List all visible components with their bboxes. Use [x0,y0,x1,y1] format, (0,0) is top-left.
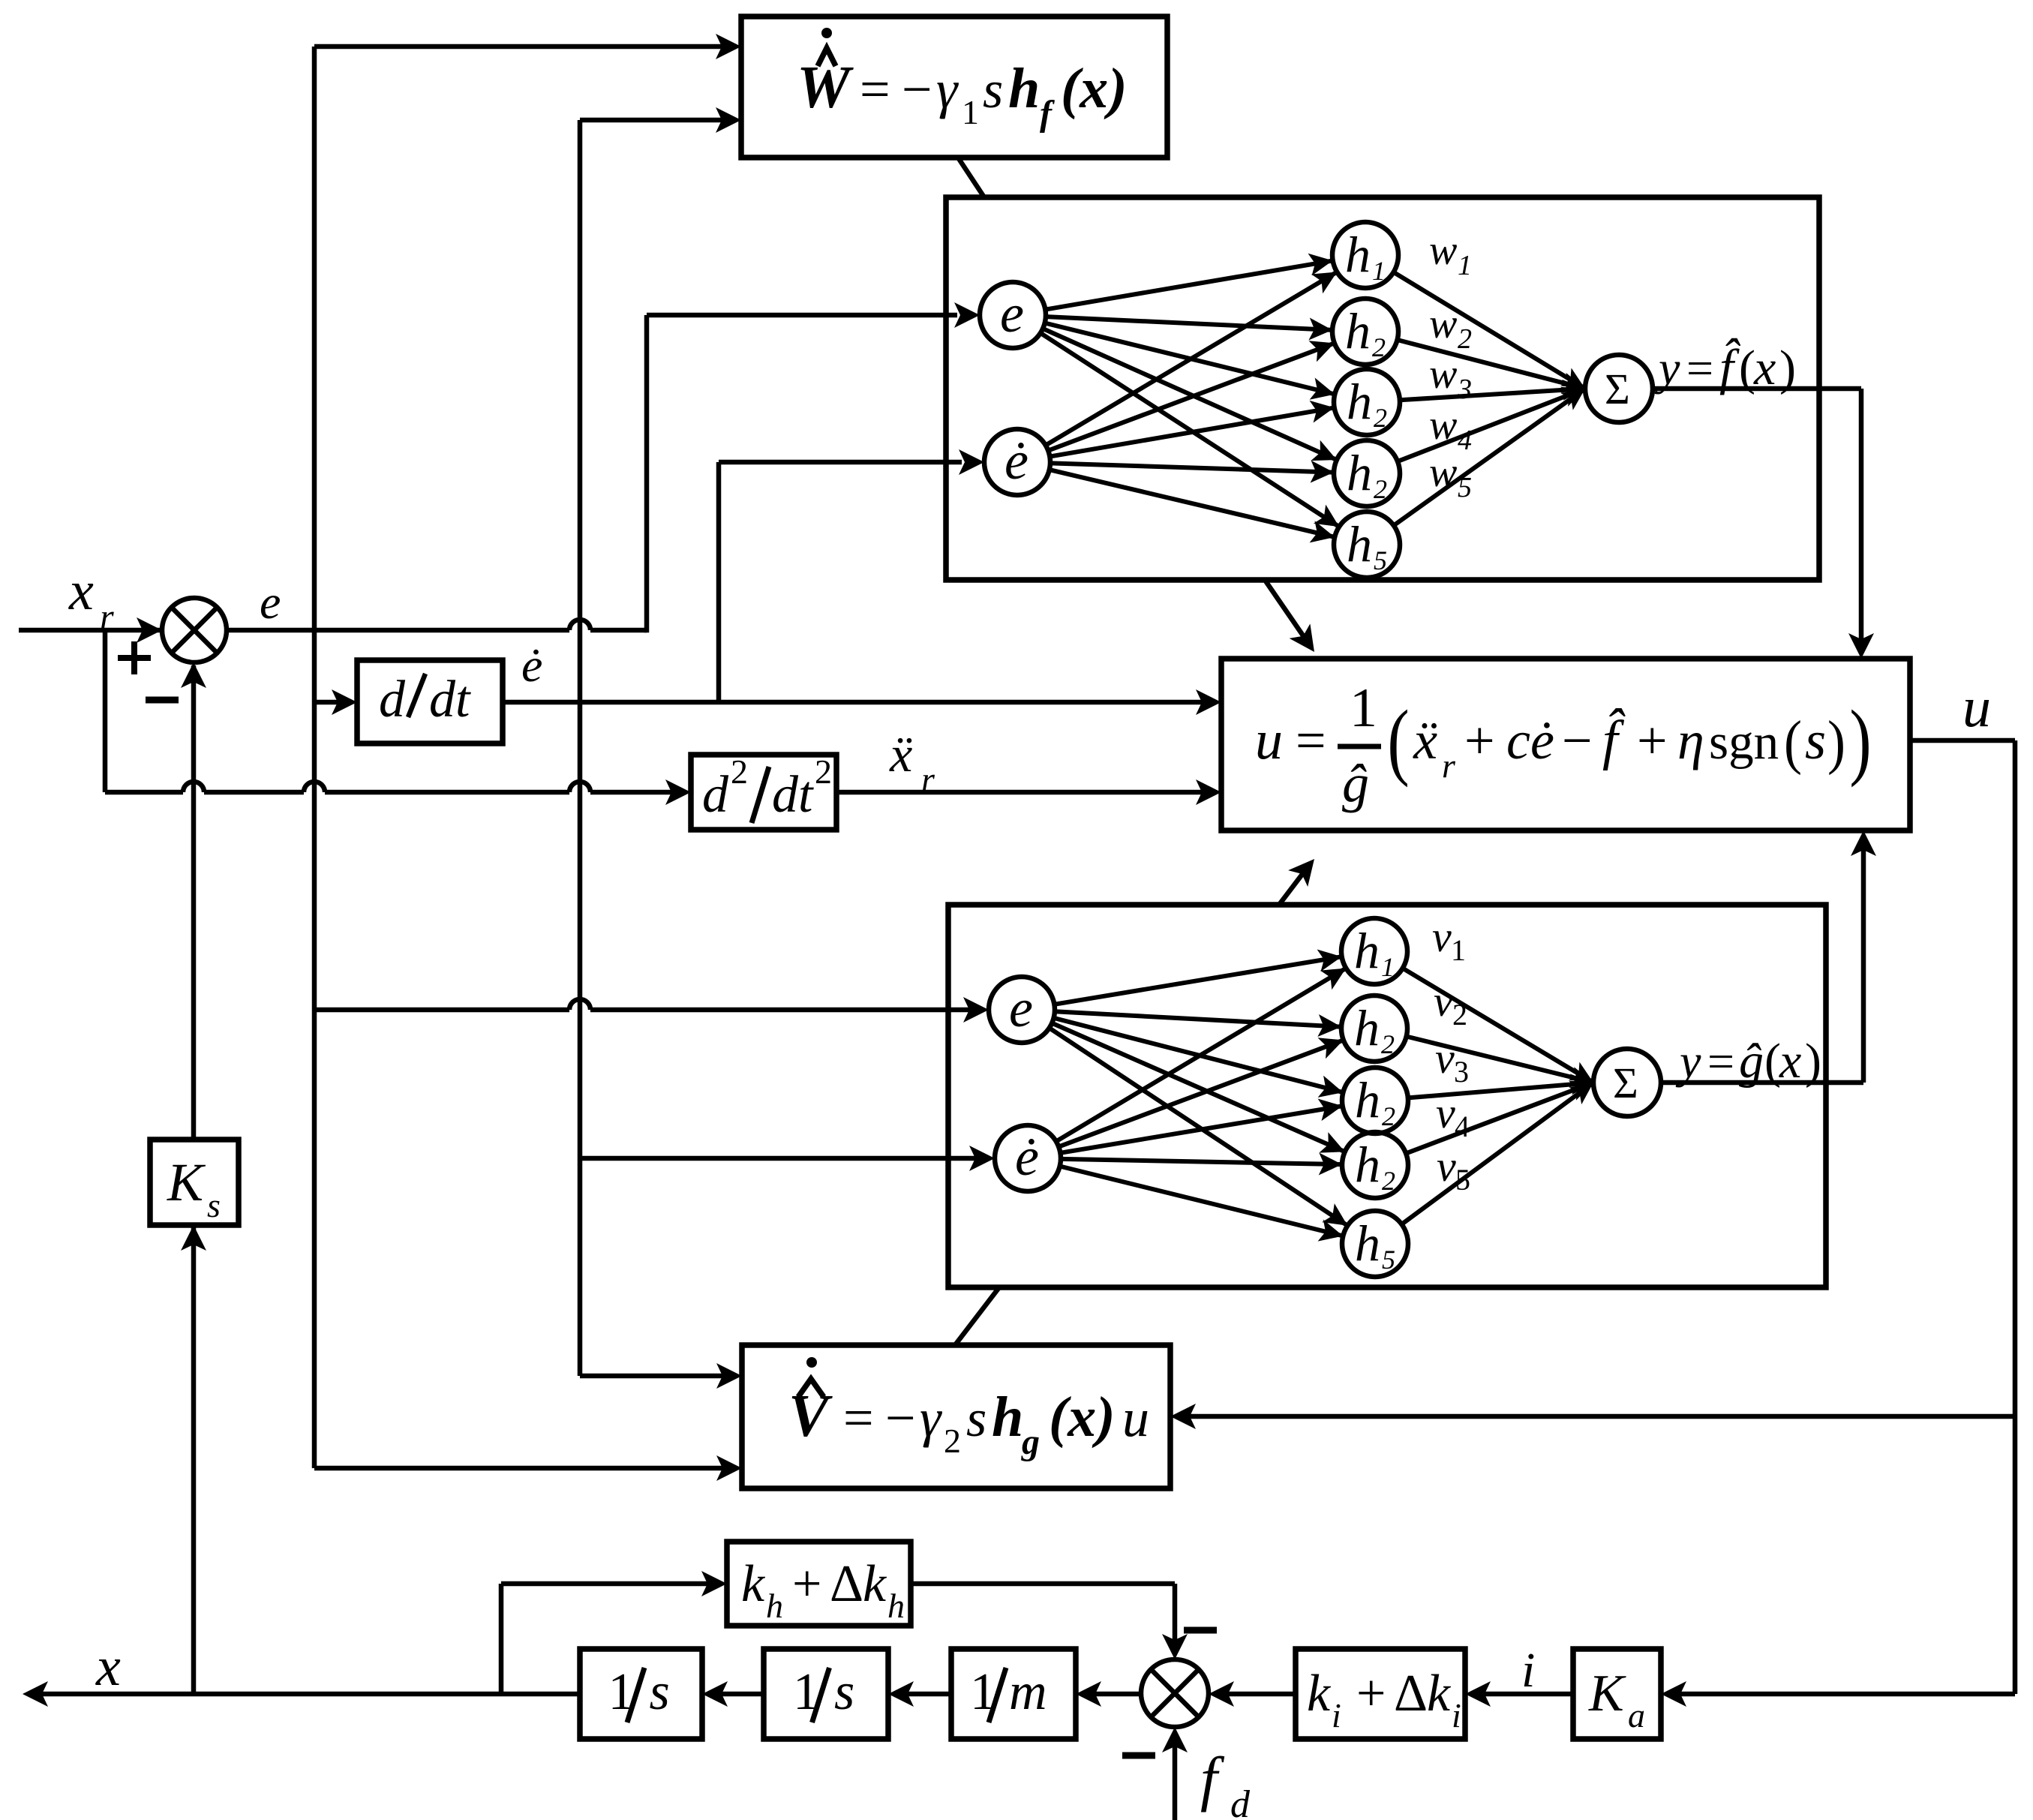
svg-text:3: 3 [1454,1055,1469,1089]
svg-text:2: 2 [731,752,748,791]
node NN1 sum [1585,355,1653,422]
svg-text:s: s [207,1186,221,1224]
svg-text:4: 4 [1458,425,1472,456]
wires NN2 edot to hidden layer [1056,969,1346,1142]
plus sign at S1 [118,655,151,661]
block 1/s (second) [580,1649,702,1739]
svg-text:ẍ: ẍ [1413,710,1437,770]
svg-text:−: − [1562,710,1593,770]
wire g-hat output from sum up into u box [1661,1080,1863,1086]
wire e into V-box input 2 [314,1466,722,1471]
svg-text:k: k [1427,1665,1452,1722]
svg-text:2: 2 [1372,332,1386,362]
wire arrow NN2 to u box [1279,867,1308,905]
svg-text:u: u [1962,676,1991,739]
svg-text:d: d [702,766,729,824]
block Ks [150,1140,239,1225]
svg-text:η: η [1677,710,1704,770]
svg-text:−: − [885,1388,916,1448]
svg-text:d: d [379,671,406,728]
wire 1/s to 1/s [722,1692,764,1697]
svg-text:r: r [921,760,935,798]
svg-text:s: s [834,1663,854,1721]
svg-text:r: r [1442,746,1456,785]
wire edot riser to NN1 edot input [716,462,722,702]
svg-text:v: v [1432,912,1452,961]
node NN2 input e [989,977,1055,1043]
formula in Ka box [1588,1665,1645,1734]
svg-text:): ) [1827,708,1845,776]
svg-text:ė: ė [1530,710,1554,770]
wire Ks feedback column from bottom line to S1 [191,1227,197,1694]
svg-text:γ: γ [920,1388,942,1448]
svg-text:(: ( [1784,708,1802,776]
wire u into V box [1190,1414,2015,1419]
svg-text:w: w [1429,449,1457,496]
summing junction S1 (x_r - x) [162,598,227,662]
svg-text:w: w [1429,351,1457,398]
node NN1 input edot [984,429,1050,495]
svg-text:(: ( [1387,693,1409,788]
svg-text:2: 2 [1458,323,1472,355]
wire e from S1 to corner then up to NN1 e input [227,628,569,633]
nodes NN2 hidden layer h1,h2,h2,h2,h5 [1341,918,1407,984]
svg-text:h: h [1347,444,1372,501]
formula in 1/s boxes [608,1663,670,1722]
svg-text:h: h [992,1386,1023,1449]
svg-text:k: k [1307,1665,1332,1722]
svg-text:+: + [1637,710,1668,770]
svg-text:(x): (x) [1049,1386,1116,1449]
svg-text:): ) [1849,693,1871,788]
wire S2 to 1/m [1095,1692,1141,1697]
block kh+dkh feedback [727,1542,911,1626]
block 1/m [951,1649,1076,1739]
svg-text:1: 1 [962,93,979,131]
svg-text:2: 2 [1382,1166,1395,1196]
wire x branch up into kh box [499,1584,504,1694]
wire u output to feedback column [1910,738,2015,743]
svg-text:Δ: Δ [1394,1665,1428,1722]
wire e feed to lower NN e input [314,1008,569,1013]
svg-text:ė: ė [1015,1127,1039,1187]
formula in ki box [1307,1665,1461,1734]
svg-text:Δ: Δ [830,1555,863,1613]
svg-text:5: 5 [1382,1245,1395,1275]
svg-text:w: w [1429,402,1457,449]
node NN2 input edot [995,1125,1061,1191]
formula in u box: u = 1/ghat (xddot_r + c edot - fhat + eta sgn(s)) [1255,677,1872,813]
wire arrow NN1 to u box [1265,580,1308,642]
svg-text:dt: dt [772,766,814,824]
svg-text:h: h [1355,1215,1380,1272]
wires NN2 e to hidden layer [1054,957,1341,1005]
svg-text:h: h [1345,302,1371,359]
svg-text:e: e [1000,284,1024,344]
wires NN1 e to hidden layer [1045,260,1332,309]
svg-text:e: e [260,575,281,629]
wire x_r input into summing junction [19,628,162,633]
svg-text:m: m [1009,1663,1047,1721]
svg-text:+: + [1464,710,1495,770]
wire e stub into d/dt [314,700,338,705]
wire connector V box to NN2 [955,1287,999,1345]
block Ka [1573,1649,1661,1739]
summing junction S2 [1141,1659,1209,1727]
wire e to W-box input 1 [314,44,722,50]
svg-text:3: 3 [1457,374,1472,405]
svg-text:h: h [1008,57,1040,120]
wire 1/m to 1/s [908,1692,951,1697]
wire edot to W-box input 2 [580,118,722,123]
wire edot feed to lower NN edot input [580,1156,975,1161]
svg-text:h: h [1354,999,1380,1056]
svg-text:v: v [1434,977,1453,1026]
svg-text:w: w [1429,301,1457,347]
svg-text:ė: ė [521,638,542,692]
wire x_r branch down to d2/dt2 feed [103,630,108,792]
svg-text:=: = [860,59,890,119]
wire f-hat output from sum down into u box [1653,386,1861,392]
svg-text:v: v [1436,1089,1455,1137]
svg-text:1: 1 [1451,933,1466,967]
svg-text:1: 1 [1350,677,1377,739]
svg-text:5: 5 [1455,1163,1470,1197]
svg-text:γ: γ [936,59,959,119]
minus sign at S1 [146,697,179,704]
svg-text:d: d [1230,1783,1251,1820]
block V adaptation law [742,1345,1170,1488]
svg-text:s: s [983,62,1003,119]
wire column x=773 (edot to W box, lower NN, V box) [578,120,583,1376]
svg-text:h: h [766,1587,783,1625]
wire xddot_r from d2/dt2 to u box [836,790,1202,795]
svg-text:+: + [792,1555,821,1613]
svg-text:ė: ė [1004,431,1029,491]
block W adaptation law [741,17,1167,158]
svg-text:sgn: sgn [1709,714,1779,770]
svg-text:2: 2 [1374,474,1387,504]
svg-text:h: h [887,1587,905,1625]
wire e column x=419 (to W box, d/dt, lower NN, V box) [312,47,317,1468]
svg-text:ẍ: ẍ [889,725,912,782]
block u control law [1221,659,1910,830]
svg-text:u: u [1255,710,1283,771]
block d/dt [357,660,503,743]
svg-text:2: 2 [815,752,832,791]
svg-text:(x): (x) [1061,57,1128,120]
svg-text:2: 2 [1452,998,1467,1032]
svg-text:x: x [95,1636,121,1698]
svg-text:1: 1 [1458,250,1472,281]
wire edot line from d/dt to u box [503,700,1202,705]
svg-text:=: = [843,1388,874,1448]
svg-text:4: 4 [1455,1110,1470,1143]
node NN1 input e [980,282,1046,348]
svg-text:x: x [68,560,94,622]
block 1/s (first) [764,1649,888,1739]
svg-text:2: 2 [1374,403,1387,433]
svg-text:+: + [1356,1665,1386,1722]
box NN1 (f-hat RBF network) [946,197,1819,580]
svg-text:h: h [1354,922,1380,979]
wire u feedback into Ka [1680,1692,2015,1697]
svg-text:h: h [1355,1136,1380,1193]
formula in W box: What-dot = -gamma1*s*hf(x) [797,28,1128,134]
wire f_d disturbance into S2 bottom [1173,1746,1178,1820]
formula in d2/dt2 box [702,752,832,824]
svg-text:s: s [1805,710,1826,770]
formula in V box: Vhat-dot = -gamma2*s*hg(x)u [788,1357,1149,1462]
wire u feedback column down [2013,740,2018,1694]
nodes NN1 hidden layer h1,h2,h2,h2,h5 [1332,222,1398,288]
svg-text:K: K [167,1152,206,1212]
svg-text:v: v [1435,1034,1455,1083]
svg-text:y: y [1675,1035,1701,1088]
svg-text:V: V [788,1383,833,1449]
svg-text:h: h [1347,515,1372,572]
svg-text:dt: dt [429,671,471,728]
svg-text:k: k [741,1555,766,1613]
block d2/dt2 [691,755,836,830]
svg-text:s: s [650,1663,670,1721]
svg-text:h: h [1345,226,1371,283]
block ki+dki [1296,1649,1465,1739]
svg-text:1: 1 [1381,952,1395,982]
svg-text:=: = [1707,1035,1734,1088]
svg-text:1: 1 [1372,256,1386,286]
formula in 1/m box [970,1663,1047,1722]
svg-text:c: c [1506,710,1530,770]
wire ki to S2 [1228,1692,1296,1697]
wire Ka to ki with i label [1485,1692,1573,1697]
svg-text:5: 5 [1458,472,1472,503]
wires NN1 hidden layer to sum [1394,272,1585,389]
svg-text:Σ: Σ [1605,365,1630,413]
svg-text:W: W [797,55,854,121]
svg-text:2: 2 [1381,1029,1395,1059]
svg-text:e: e [1009,978,1033,1038]
svg-text:i: i [1332,1696,1341,1734]
wires NN1 edot to hidden layer [1046,272,1337,446]
svg-text:Σ: Σ [1613,1059,1638,1107]
svg-text:=: = [1296,710,1326,770]
svg-text:s: s [966,1390,986,1448]
svg-text:−: − [902,59,932,119]
svg-text:5: 5 [1374,545,1387,575]
svg-text:w: w [1429,227,1457,274]
svg-text:u: u [1122,1388,1149,1448]
svg-text:v: v [1437,1142,1456,1191]
minus sign at S2 top [1184,1627,1217,1634]
svg-text:K: K [1588,1665,1626,1722]
svg-text:g: g [1021,1422,1040,1462]
svg-text:h: h [1355,1071,1380,1128]
svg-text:h: h [1347,373,1372,430]
svg-text:i: i [1521,1643,1535,1698]
svg-text:k: k [863,1555,887,1613]
wires NN2 hidden layer to sum [1403,969,1593,1083]
svg-text:i: i [1452,1696,1461,1734]
svg-text:a: a [1628,1696,1645,1734]
wire kh output down into S2 [911,1581,1175,1587]
node NN2 sum [1593,1049,1661,1116]
wire connector W box to NN1 [958,158,984,197]
wire edot into V-box input 1 [580,1374,722,1379]
svg-text:2: 2 [944,1422,961,1460]
wire x output line to the left [42,1692,580,1697]
box NN2 (g-hat RBF network) [948,905,1826,1287]
svg-text:2: 2 [1382,1101,1395,1131]
svg-text:ĝ: ĝ [1342,753,1369,813]
formula in kh box [741,1555,905,1625]
minus sign at S2 bottom [1122,1752,1155,1759]
